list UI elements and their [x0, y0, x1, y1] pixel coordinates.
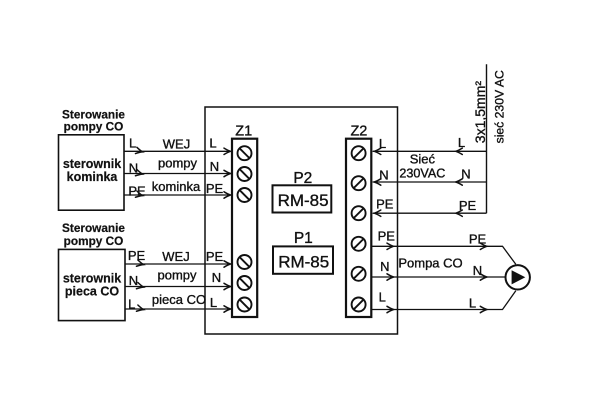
svg-text:WEJ: WEJ — [163, 136, 190, 151]
svg-text:PE: PE — [459, 198, 477, 213]
svg-text:N: N — [379, 167, 388, 182]
svg-text:Z1: Z1 — [235, 124, 252, 140]
svg-text:L: L — [128, 297, 135, 312]
svg-text:RM-85: RM-85 — [278, 191, 329, 210]
svg-text:sterownik: sterownik — [63, 271, 121, 285]
svg-text:PE: PE — [378, 228, 396, 243]
svg-text:N: N — [129, 273, 138, 288]
svg-text:N: N — [461, 167, 470, 182]
svg-text:pompy: pompy — [157, 267, 197, 282]
svg-text:pompy CO: pompy CO — [64, 234, 124, 248]
svg-text:pieca CO: pieca CO — [65, 284, 119, 298]
svg-text:PE: PE — [206, 181, 224, 196]
svg-text:kominka: kominka — [152, 179, 201, 194]
svg-text:3x1,5mm²: 3x1,5mm² — [472, 81, 488, 144]
svg-text:RM-85: RM-85 — [278, 253, 329, 272]
svg-text:Sieć: Sieć — [410, 151, 436, 166]
svg-text:pompy CO: pompy CO — [64, 119, 124, 133]
svg-text:L: L — [209, 135, 216, 150]
svg-text:N: N — [212, 270, 221, 285]
svg-text:N: N — [473, 263, 482, 278]
svg-text:230VAC: 230VAC — [399, 167, 445, 181]
svg-text:PE: PE — [128, 183, 146, 198]
svg-text:N: N — [380, 259, 389, 274]
svg-text:N: N — [210, 159, 219, 174]
svg-text:pieca CO: pieca CO — [152, 292, 206, 307]
svg-text:Pompa CO: Pompa CO — [398, 256, 462, 271]
svg-text:WEJ: WEJ — [162, 249, 189, 264]
svg-text:Sterowanie: Sterowanie — [62, 221, 125, 235]
svg-text:L: L — [379, 136, 386, 151]
svg-text:L: L — [379, 289, 386, 304]
svg-text:PE: PE — [469, 231, 487, 246]
svg-text:L: L — [129, 135, 136, 150]
svg-text:sieć 230V AC: sieć 230V AC — [492, 70, 506, 143]
svg-text:L: L — [210, 295, 217, 310]
svg-text:kominka: kominka — [67, 170, 119, 184]
svg-text:Z2: Z2 — [350, 123, 367, 139]
svg-text:L: L — [469, 295, 476, 310]
svg-text:PE: PE — [376, 197, 394, 212]
svg-text:PE: PE — [128, 248, 146, 263]
svg-text:N: N — [129, 160, 138, 175]
svg-text:PE: PE — [206, 249, 224, 264]
svg-text:P1: P1 — [294, 230, 313, 247]
svg-text:pompy: pompy — [158, 156, 198, 171]
svg-text:L: L — [458, 135, 465, 150]
